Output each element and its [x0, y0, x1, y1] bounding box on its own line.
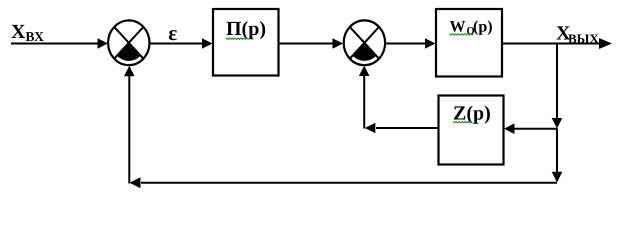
- svg-text:ε: ε: [168, 21, 177, 45]
- node X_вых label: [556, 23, 599, 47]
- wire regulator to summing junction 2: [279, 38, 344, 49]
- svg-text:Х: Х: [11, 21, 26, 43]
- wire input to summing junction 1: [11, 38, 108, 49]
- wire branch to Z(p) input: [504, 123, 557, 134]
- wire output branch down to Z input node (upper segment): [552, 44, 563, 129]
- svg-text:ВЫХ: ВЫХ: [568, 31, 599, 46]
- spellcheck squiggle under Z(: [453, 121, 473, 123]
- summing junction 1 (comparator): [108, 20, 149, 65]
- svg-text:ВХ: ВХ: [26, 29, 45, 44]
- wire bottom corner up into summing junction 1: [124, 66, 135, 184]
- node X_вх label: [11, 21, 44, 44]
- block W_o(p) plant: [436, 9, 502, 77]
- wire Z(p) output to corner below summing junction 2: [365, 123, 439, 134]
- spellcheck squiggle under П(: [226, 38, 249, 40]
- spellcheck squiggle under W_o(: [450, 34, 474, 36]
- summing junction 2 (comparator): [344, 20, 385, 65]
- wire summing junction 1 to regulator: [150, 38, 213, 49]
- svg-text:П(р): П(р): [226, 18, 266, 40]
- wire summing junction 2 to plant: [385, 38, 435, 49]
- wire plant output to X_вых arrow: [502, 38, 612, 49]
- wire Z input node down to bottom feedback (lower segment): [552, 129, 563, 183]
- svg-text:W: W: [450, 19, 466, 36]
- wire corner up into summing junction 2: [359, 66, 370, 129]
- block Z(p) feedback sensor: [439, 96, 504, 165]
- wire bottom feedback line: [130, 177, 558, 188]
- block П(p) regulator: [213, 9, 279, 76]
- svg-text:(р): (р): [473, 19, 493, 36]
